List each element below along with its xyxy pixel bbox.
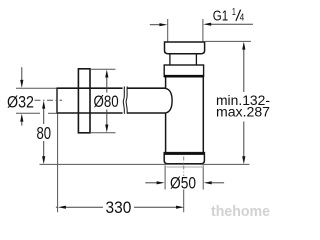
cup xyxy=(164,153,204,164)
dim O32 top extension xyxy=(16,87,57,89)
cup lip thick line xyxy=(164,152,204,154)
dim 330 line with arrows xyxy=(56,206,184,209)
label G1 1/4 xyxy=(213,7,245,25)
svg-text:330: 330 xyxy=(106,198,132,217)
dim O32 top arrow xyxy=(20,67,23,88)
svg-text:Ø50: Ø50 xyxy=(170,174,196,193)
dim 330 left extension xyxy=(57,114,59,213)
body nut thick bottom edge xyxy=(164,75,204,78)
inlet bulge xyxy=(166,88,173,113)
dim O80 bottom extension xyxy=(90,132,116,134)
trap body left edge upper xyxy=(165,77,167,89)
svg-text:Ø32: Ø32 xyxy=(7,92,34,111)
dim min-max line with arrows xyxy=(242,42,245,165)
dim O50 left arrow xyxy=(145,181,164,184)
cup inner bottom rim line xyxy=(167,166,204,168)
tail nut (top nut) xyxy=(165,42,205,54)
dim O32 bottom arrow xyxy=(20,114,23,126)
label min.132-max.287 xyxy=(216,93,270,119)
svg-text:Ø80: Ø80 xyxy=(94,92,119,111)
svg-text:G1: G1 xyxy=(213,8,228,25)
dim O50 right extension xyxy=(202,165,204,189)
watermark thehome xyxy=(211,202,271,220)
svg-text:max.287: max.287 xyxy=(216,105,270,120)
dim O80 line with arrows xyxy=(105,70,108,133)
bottom reference extension line xyxy=(40,163,250,165)
pipe break symbol xyxy=(123,86,128,114)
dim O50 right arrow xyxy=(204,181,224,184)
leader G1 1/4 with arrow xyxy=(203,23,253,26)
svg-text:4: 4 xyxy=(240,13,245,24)
dim min-max top extension xyxy=(205,40,251,42)
inlet pipe bottom line xyxy=(57,112,166,114)
dim O50 left extension xyxy=(164,165,166,189)
svg-text:1: 1 xyxy=(232,7,236,18)
extension line G thread left xyxy=(167,19,169,42)
wall flange xyxy=(78,69,90,133)
trap body left edge lower xyxy=(165,113,167,153)
body nut xyxy=(164,65,203,77)
trap centerline vertical dash-dot xyxy=(183,157,185,177)
trap body right edge xyxy=(202,77,204,153)
neck tube between nuts xyxy=(169,54,171,65)
svg-text:thehome: thehome xyxy=(211,203,270,220)
pipe centerline dash-dot xyxy=(35,99,63,101)
dim O80 top extension xyxy=(90,68,116,70)
extension line G thread right xyxy=(202,19,204,42)
dimension arrow G left xyxy=(150,23,168,26)
dim 80 vertical line with arrows xyxy=(42,101,45,165)
pipe end cap xyxy=(56,88,58,114)
inlet pipe top line xyxy=(57,87,166,89)
svg-text:80: 80 xyxy=(37,123,52,143)
dim O32 bottom extension xyxy=(16,112,40,114)
